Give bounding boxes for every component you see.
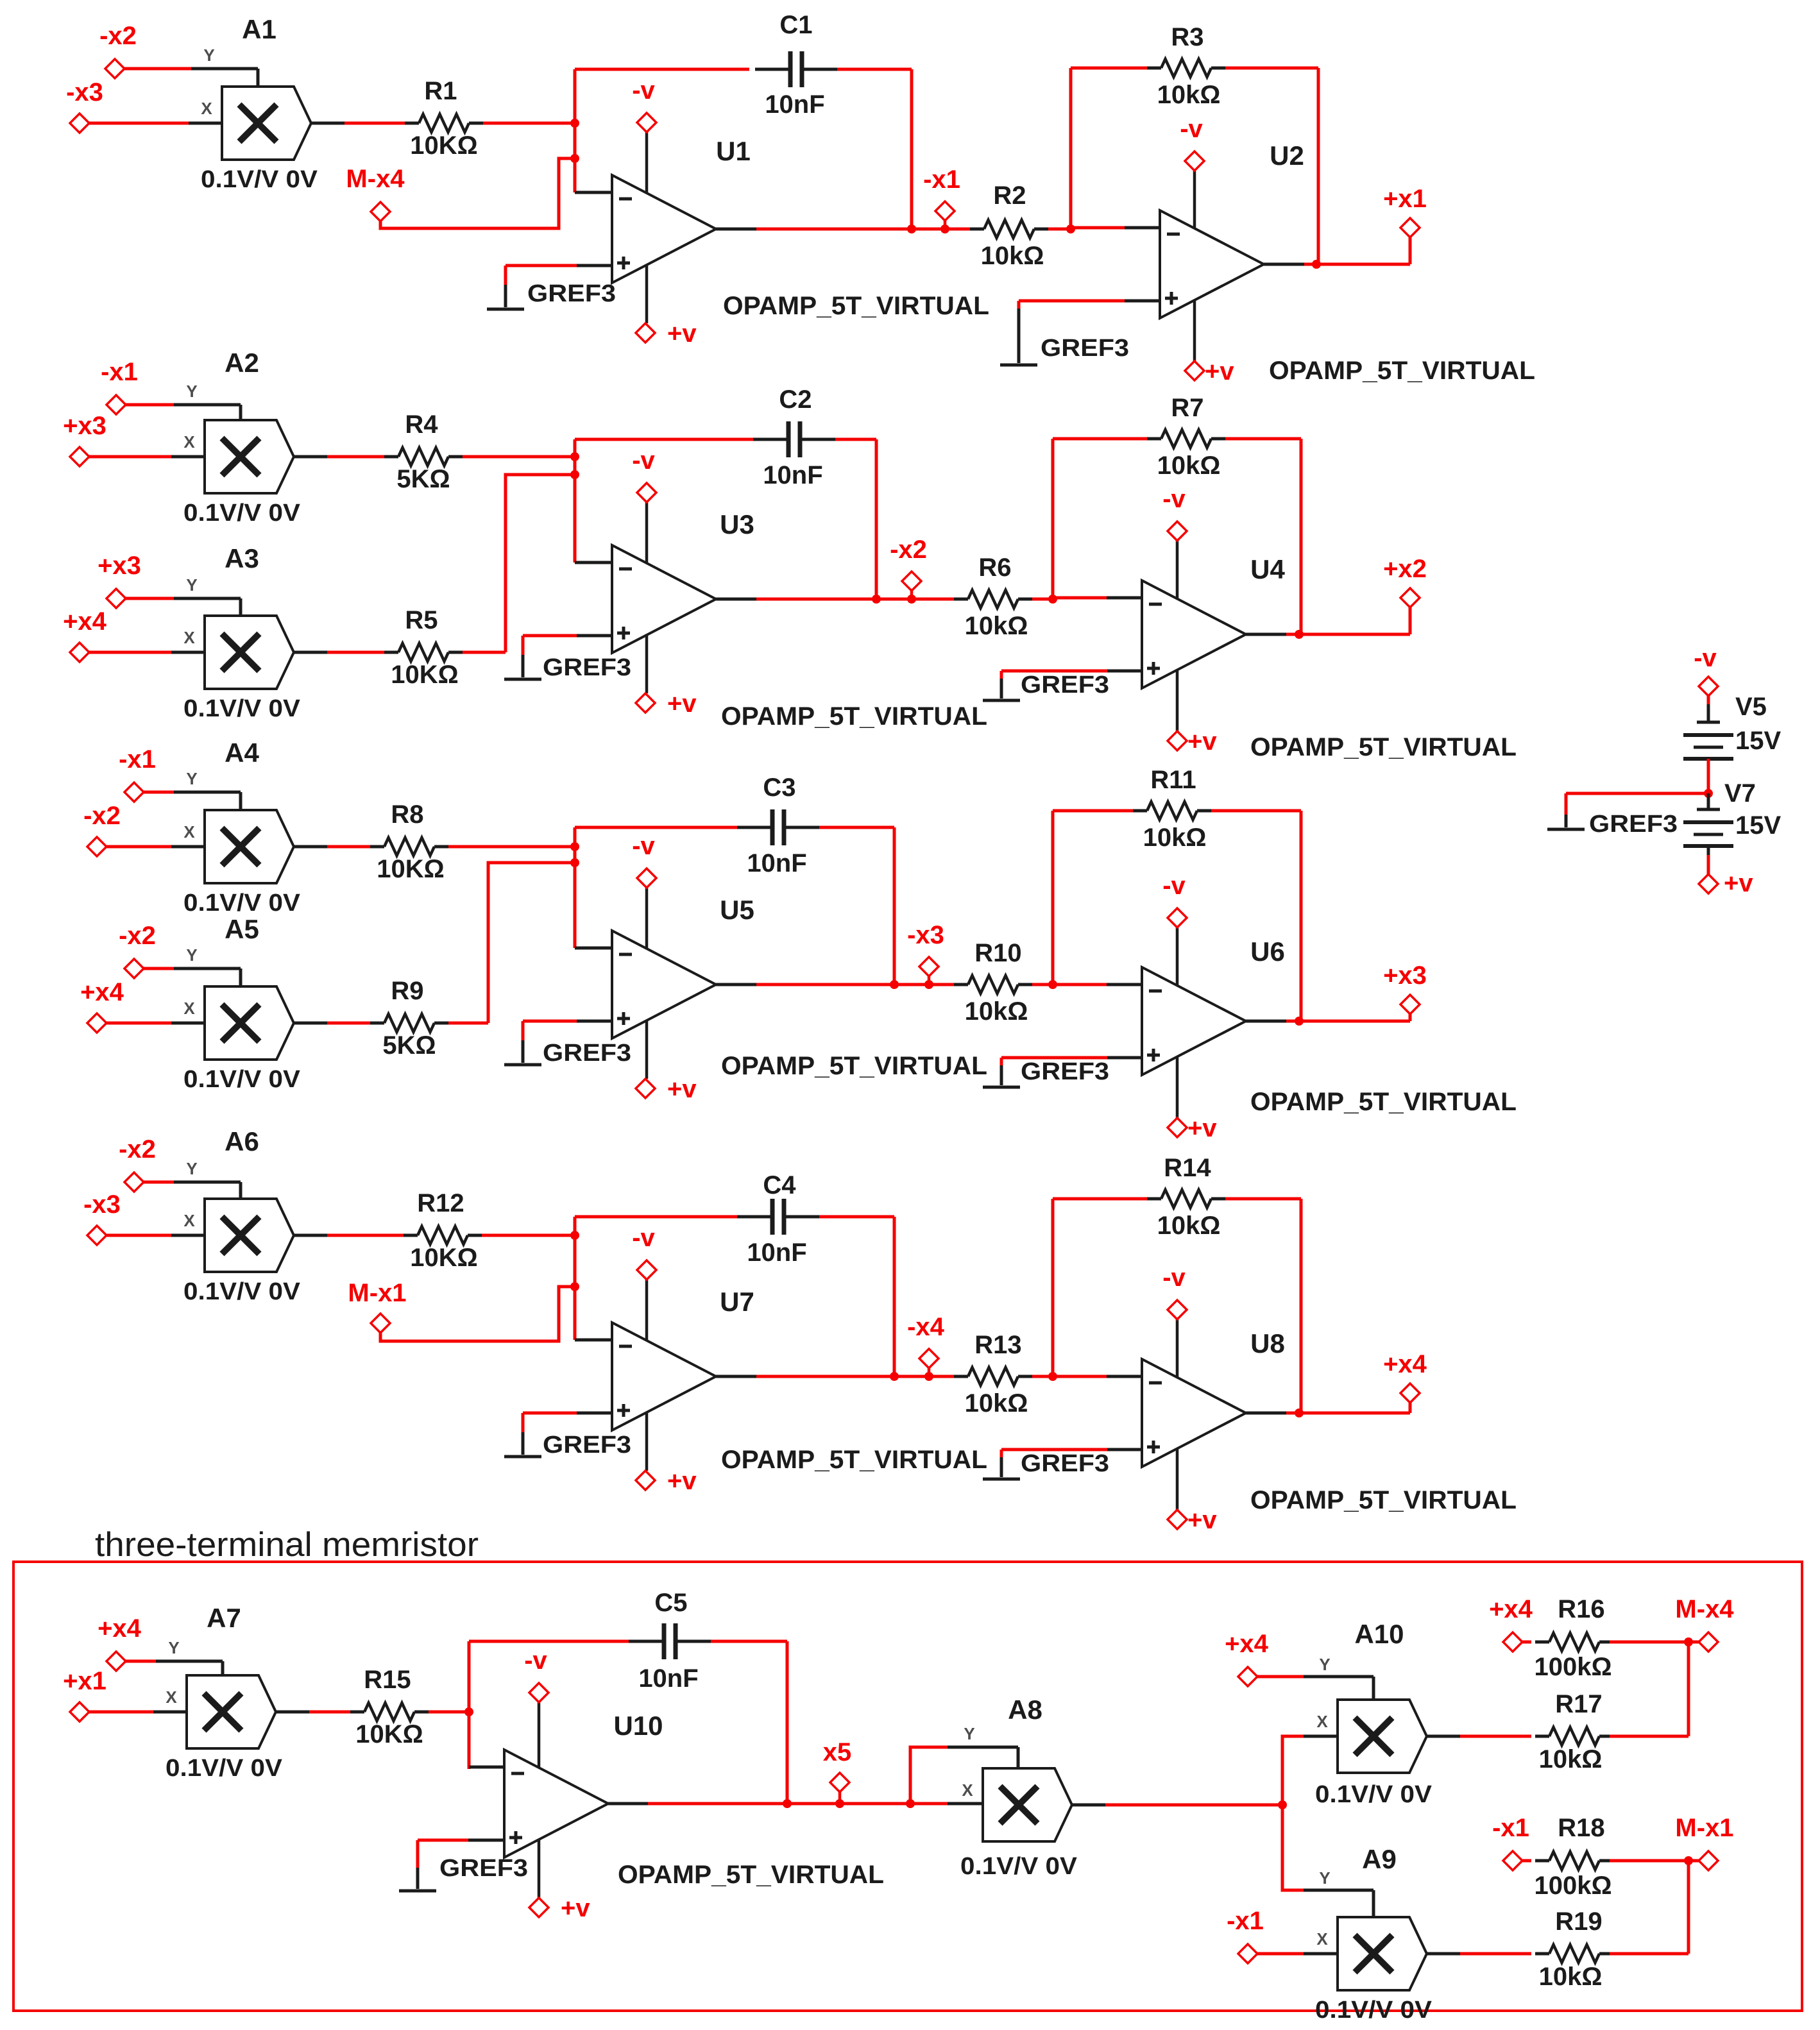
wire A8 Y input bbox=[910, 1747, 948, 1804]
svg-text:R15: R15 bbox=[364, 1666, 411, 1694]
svg-text:GREF3: GREF3 bbox=[543, 1432, 631, 1459]
svg-text:+v: +v bbox=[1724, 869, 1753, 897]
power terminal +v (battery) bbox=[1699, 874, 1718, 893]
three-terminal memristor bounding box bbox=[13, 1562, 1802, 2011]
svg-text:X: X bbox=[183, 999, 195, 1018]
svg-text:Y: Y bbox=[964, 1724, 974, 1743]
wire M-x1 to U7 inverting node bbox=[380, 1287, 575, 1341]
svg-text:M-x4: M-x4 bbox=[346, 165, 405, 193]
svg-text:+x4: +x4 bbox=[63, 607, 107, 636]
resistor R12 10K bbox=[327, 1234, 404, 1237]
svg-text:Y: Y bbox=[1319, 1655, 1330, 1674]
node -x3 terminal bbox=[70, 114, 89, 133]
svg-text:10kΩ: 10kΩ bbox=[1143, 824, 1207, 852]
svg-text:U1: U1 bbox=[716, 136, 751, 166]
power terminal -v (U5) bbox=[645, 888, 649, 949]
wire R16 to M-x4 bbox=[1610, 1641, 1699, 1644]
junction C1/output bbox=[907, 224, 916, 233]
wire U10 output to x5 bbox=[608, 1802, 648, 1806]
svg-text:A3: A3 bbox=[225, 543, 259, 573]
node -x1 terminal bbox=[124, 782, 144, 802]
multiplier A8 bbox=[983, 1768, 1072, 1841]
svg-text:+x4: +x4 bbox=[1489, 1595, 1533, 1623]
wire R18 to M-x1 bbox=[1610, 1859, 1699, 1863]
svg-text:0.1V/V 0V: 0.1V/V 0V bbox=[183, 1066, 301, 1093]
svg-text:+x4: +x4 bbox=[1383, 1350, 1427, 1378]
wire (U1 output) bbox=[716, 228, 756, 231]
power terminal +v (U7) bbox=[645, 1412, 649, 1471]
svg-text:+v: +v bbox=[561, 1894, 590, 1922]
svg-text:R3: R3 bbox=[1171, 23, 1203, 51]
wire bbox=[144, 967, 174, 970]
svg-text:10KΩ: 10KΩ bbox=[410, 1244, 477, 1272]
svg-text:+x3: +x3 bbox=[1383, 961, 1427, 990]
junction R9/U5 bbox=[570, 858, 579, 867]
wire C4 right vertical bbox=[893, 1217, 896, 1376]
wire C5 right vertical bbox=[786, 1641, 789, 1804]
svg-text:GREF3: GREF3 bbox=[543, 654, 631, 681]
node -x2 terminal bbox=[124, 959, 144, 978]
op-amp U3 bbox=[612, 545, 716, 653]
wire V7 to +v bbox=[1707, 846, 1710, 855]
power terminal +v (U6) bbox=[1176, 1057, 1179, 1118]
node -x1 terminal (R18) bbox=[1503, 1851, 1522, 1870]
junction A8-Y branch bbox=[906, 1799, 915, 1808]
wire bbox=[311, 122, 344, 125]
wire bbox=[276, 1711, 309, 1714]
node +x4 output terminal bbox=[1400, 1383, 1420, 1403]
wire (U6 inverting input) bbox=[1053, 983, 1107, 986]
svg-text:-v: -v bbox=[1162, 1264, 1186, 1292]
svg-text:10kΩ: 10kΩ bbox=[1157, 1212, 1221, 1240]
junction -x1 bbox=[940, 224, 949, 233]
svg-text:+x3: +x3 bbox=[98, 552, 141, 580]
wire U1 inverting vertical bbox=[574, 69, 577, 192]
wire feedback right (R7) bbox=[1300, 439, 1303, 634]
wire U5 output to -x3 bbox=[756, 983, 954, 986]
wire -v to V5 bbox=[1707, 696, 1710, 704]
svg-text:R14: R14 bbox=[1164, 1154, 1211, 1182]
svg-text:10kΩ: 10kΩ bbox=[965, 997, 1028, 1026]
junction -x4 bbox=[924, 1372, 933, 1381]
op-amp U7 bbox=[612, 1323, 716, 1430]
svg-text:10KΩ: 10KΩ bbox=[410, 131, 477, 160]
junction R15/U10 bbox=[464, 1707, 473, 1716]
svg-text:10kΩ: 10kΩ bbox=[1157, 81, 1221, 109]
power terminal -v (U2) bbox=[1193, 171, 1196, 228]
svg-text:R9: R9 bbox=[391, 977, 423, 1005]
wire A10 output bbox=[1427, 1735, 1460, 1738]
svg-text:+x4: +x4 bbox=[80, 978, 124, 1006]
svg-text:GREF3: GREF3 bbox=[1021, 1058, 1109, 1085]
wire R12 to U7 node bbox=[482, 1234, 575, 1237]
wire bbox=[106, 845, 171, 849]
wire bbox=[126, 597, 174, 600]
svg-text:Y: Y bbox=[168, 1638, 179, 1657]
wire (U6 output) bbox=[1246, 1020, 1286, 1023]
wire feedback right (R3) bbox=[1317, 68, 1320, 264]
svg-text:-v: -v bbox=[1162, 872, 1186, 900]
svg-text:Y: Y bbox=[186, 769, 197, 788]
svg-text:+v: +v bbox=[667, 1467, 697, 1495]
ground GREF3 (U1 non-inverting input) bbox=[577, 264, 612, 267]
svg-text:X: X bbox=[183, 1211, 195, 1230]
svg-text:-v: -v bbox=[632, 832, 655, 860]
junction A8 output branch bbox=[1278, 1800, 1287, 1809]
node +x3 output terminal bbox=[1400, 995, 1420, 1014]
op-amp U10 bbox=[504, 1750, 608, 1857]
svg-text:R7: R7 bbox=[1171, 394, 1203, 422]
junction M-x4 node bbox=[1684, 1637, 1693, 1646]
op-amp U8 bbox=[1142, 1359, 1246, 1467]
svg-text:A4: A4 bbox=[225, 738, 259, 768]
ground GREF3 (U2 non-inverting input) bbox=[1125, 300, 1160, 303]
multiplier A1 bbox=[222, 87, 311, 160]
svg-text:-x3: -x3 bbox=[66, 78, 103, 106]
svg-text:U6: U6 bbox=[1250, 936, 1285, 967]
op-amp U5 bbox=[612, 931, 716, 1038]
node -x2 terminal bbox=[105, 59, 124, 78]
resistor R10 10k bbox=[968, 976, 1018, 994]
node M-x1 output terminal bbox=[1699, 1851, 1718, 1870]
svg-text:U10: U10 bbox=[613, 1711, 663, 1741]
svg-text:10kΩ: 10kΩ bbox=[1539, 1963, 1603, 1991]
svg-text:0.1V/V 0V: 0.1V/V 0V bbox=[183, 500, 301, 527]
wire bbox=[89, 455, 171, 459]
svg-text:R19: R19 bbox=[1555, 1907, 1602, 1936]
svg-text:OPAMP_5T_VIRTUAL: OPAMP_5T_VIRTUAL bbox=[1269, 357, 1535, 385]
battery V5 15V bbox=[1697, 721, 1720, 724]
junction R2/R3/U2 bbox=[1066, 224, 1075, 233]
wire R6 to U4 bbox=[1032, 598, 1053, 601]
node -x3 terminal bbox=[87, 1226, 106, 1245]
svg-text:A8: A8 bbox=[1008, 1695, 1042, 1725]
wire R17 to M-x4 node bbox=[1610, 1735, 1688, 1738]
svg-text:10kΩ: 10kΩ bbox=[965, 612, 1028, 640]
node +x4 terminal bbox=[106, 1652, 126, 1671]
node +x1 terminal bbox=[70, 1702, 89, 1721]
svg-text:-v: -v bbox=[1694, 644, 1717, 672]
node +x4 terminal bbox=[87, 1013, 106, 1033]
svg-text:A1: A1 bbox=[242, 14, 276, 44]
svg-text:X: X bbox=[962, 1780, 973, 1800]
svg-text:OPAMP_5T_VIRTUAL: OPAMP_5T_VIRTUAL bbox=[618, 1861, 884, 1889]
wire M-x4 to U1 inverting node bbox=[380, 158, 575, 228]
wire bbox=[126, 1660, 156, 1663]
junction M-x1 node bbox=[1684, 1856, 1693, 1865]
wire R4 to U3 node bbox=[463, 455, 575, 459]
wire feedback left (R11) bbox=[1051, 811, 1055, 985]
node -x2 terminal bbox=[902, 571, 921, 591]
wire C1 right vertical bbox=[910, 69, 914, 229]
svg-text:10KΩ: 10KΩ bbox=[355, 1720, 423, 1748]
wire C3 right vertical bbox=[893, 827, 896, 985]
svg-text:C5: C5 bbox=[654, 1589, 687, 1617]
wire A9 output bbox=[1427, 1952, 1460, 1956]
resistor R18 100k bbox=[1522, 1859, 1531, 1863]
ground GREF3 (U10 non-inverting input) bbox=[468, 1839, 504, 1842]
svg-text:OPAMP_5T_VIRTUAL: OPAMP_5T_VIRTUAL bbox=[1250, 1088, 1517, 1116]
svg-text:Y: Y bbox=[186, 575, 197, 595]
wire A9 X input bbox=[1257, 1952, 1304, 1956]
svg-text:10kΩ: 10kΩ bbox=[1539, 1745, 1603, 1773]
multiplier A5 bbox=[205, 986, 294, 1060]
junction R13/R14/U8 bbox=[1048, 1372, 1057, 1381]
svg-text:-x2: -x2 bbox=[99, 22, 137, 50]
wire feedback right (R14) bbox=[1300, 1199, 1303, 1413]
svg-text:0.1V/V 0V: 0.1V/V 0V bbox=[201, 166, 318, 193]
svg-text:+x4: +x4 bbox=[98, 1614, 142, 1643]
svg-text:+x1: +x1 bbox=[1383, 185, 1427, 213]
resistor R1 10K bbox=[344, 122, 405, 125]
multiplier A10 bbox=[1338, 1700, 1427, 1773]
svg-text:A7: A7 bbox=[207, 1603, 241, 1633]
node M-x4 output terminal bbox=[1699, 1632, 1718, 1652]
multiplier A4 bbox=[205, 810, 294, 883]
svg-text:GREF3: GREF3 bbox=[543, 1040, 631, 1067]
svg-text:R18: R18 bbox=[1558, 1814, 1604, 1842]
wire V5 to junction bbox=[1707, 759, 1710, 793]
node -x4 terminal bbox=[919, 1349, 939, 1368]
svg-text:OPAMP_5T_VIRTUAL: OPAMP_5T_VIRTUAL bbox=[721, 702, 987, 731]
svg-text:+v: +v bbox=[667, 319, 697, 348]
svg-text:0.1V/V 0V: 0.1V/V 0V bbox=[1315, 1997, 1433, 2024]
svg-text:U4: U4 bbox=[1250, 554, 1285, 584]
svg-text:X: X bbox=[201, 99, 212, 118]
junction M-x1 bbox=[570, 1282, 579, 1291]
power terminal -v (U6) bbox=[1176, 927, 1179, 985]
multiplier A7 bbox=[187, 1675, 276, 1748]
resistor R4 5K bbox=[327, 455, 384, 459]
node -x3 terminal bbox=[919, 957, 939, 976]
svg-text:A10: A10 bbox=[1354, 1619, 1404, 1649]
svg-text:R17: R17 bbox=[1555, 1690, 1602, 1718]
svg-text:+x2: +x2 bbox=[1383, 555, 1427, 583]
multiplier A2 bbox=[205, 420, 294, 493]
power terminal +v (U5) bbox=[645, 1020, 649, 1079]
svg-text:+v: +v bbox=[1187, 727, 1217, 756]
wire R19 to M-x1 node bbox=[1610, 1952, 1688, 1956]
resistor R3 feedback 10k bbox=[1071, 67, 1147, 70]
power terminal +v (U8) bbox=[1176, 1449, 1179, 1510]
op-amp U1 bbox=[612, 175, 716, 283]
svg-text:R1: R1 bbox=[424, 77, 457, 105]
svg-text:A2: A2 bbox=[225, 348, 259, 378]
power terminal +v (U4) bbox=[1176, 670, 1179, 731]
svg-text:0.1V/V 0V: 0.1V/V 0V bbox=[183, 890, 301, 917]
svg-text:-x1: -x1 bbox=[1227, 1907, 1264, 1935]
svg-text:+x1: +x1 bbox=[63, 1667, 106, 1695]
capacitor C2 10nF feedback bbox=[575, 438, 753, 441]
svg-text:Y: Y bbox=[203, 46, 214, 65]
wire (U8 inverting input) bbox=[1053, 1375, 1107, 1378]
junction at U8 output bbox=[1295, 1408, 1304, 1417]
svg-text:10nF: 10nF bbox=[747, 1239, 806, 1267]
multiplier A9 bbox=[1338, 1917, 1427, 1990]
resistor R11 feedback 10k bbox=[1053, 809, 1133, 813]
resistor R6 10k bbox=[968, 590, 1018, 608]
svg-text:-x1: -x1 bbox=[119, 745, 156, 774]
ground GREF3 (battery) bbox=[1566, 792, 1708, 795]
resistor R7 feedback 10k bbox=[1053, 437, 1147, 441]
node -x1 terminal (A9 X) bbox=[1238, 1944, 1257, 1963]
svg-text:A9: A9 bbox=[1362, 1844, 1397, 1874]
node -x1 terminal bbox=[106, 395, 126, 414]
svg-text:10nF: 10nF bbox=[638, 1664, 698, 1693]
wire to A9 Y input bbox=[1282, 1805, 1304, 1890]
junction -x3 bbox=[924, 980, 933, 989]
wire R9 to U5 node bbox=[448, 1022, 488, 1025]
svg-text:10kΩ: 10kΩ bbox=[1157, 452, 1221, 480]
wire (U7 inverting input) bbox=[575, 1339, 612, 1342]
wire A10 Y input bbox=[1257, 1675, 1304, 1679]
wire U5 inverting vertical bbox=[574, 827, 577, 948]
wire bbox=[294, 1234, 327, 1237]
wire (U4 inverting input) bbox=[1053, 596, 1107, 600]
battery V7 15V bbox=[1707, 793, 1710, 809]
junction R8/U5 bbox=[570, 842, 579, 851]
wire bbox=[89, 651, 171, 654]
op-amp U4 bbox=[1142, 580, 1246, 688]
node +x2 output terminal bbox=[1400, 588, 1420, 607]
svg-text:5KΩ: 5KΩ bbox=[396, 465, 450, 493]
svg-text:U3: U3 bbox=[720, 509, 754, 539]
svg-text:R8: R8 bbox=[391, 800, 423, 829]
ground GREF3 (U8 non-inverting input) bbox=[1107, 1448, 1142, 1451]
capacitor C5 10nF feedback bbox=[469, 1640, 629, 1643]
multiplier A6 bbox=[205, 1199, 294, 1272]
resistor R15 10K bbox=[309, 1711, 350, 1714]
svg-text:GREF3: GREF3 bbox=[1021, 1450, 1109, 1477]
svg-text:+x3: +x3 bbox=[63, 412, 106, 440]
junction -x2 bbox=[907, 595, 916, 604]
wire bbox=[294, 651, 327, 654]
wire bbox=[294, 845, 327, 849]
junction R6/R7/U4 bbox=[1048, 595, 1057, 604]
wire A8 output bbox=[1072, 1804, 1105, 1807]
svg-text:R6: R6 bbox=[978, 554, 1011, 582]
svg-text:-v: -v bbox=[632, 1224, 655, 1252]
svg-text:three-terminal memristor: three-terminal memristor bbox=[95, 1526, 479, 1564]
capacitor C4 10nF feedback bbox=[575, 1215, 737, 1219]
svg-text:0.1V/V 0V: 0.1V/V 0V bbox=[166, 1755, 283, 1782]
svg-text:GREF3: GREF3 bbox=[1041, 335, 1129, 362]
svg-text:R13: R13 bbox=[974, 1331, 1021, 1359]
junction R12/U7 bbox=[570, 1231, 579, 1240]
wire bbox=[106, 1234, 171, 1237]
svg-text:R12: R12 bbox=[417, 1189, 464, 1217]
svg-text:A6: A6 bbox=[225, 1126, 259, 1156]
junction R1/U1 bbox=[570, 119, 579, 128]
svg-text:10nF: 10nF bbox=[765, 90, 824, 119]
wire R10 to U6 bbox=[1032, 983, 1053, 986]
wire (U2 output) bbox=[1264, 263, 1304, 266]
svg-text:-v: -v bbox=[1180, 115, 1203, 143]
wire U10 inverting vertical bbox=[468, 1641, 471, 1769]
junction C4/output bbox=[890, 1372, 899, 1381]
svg-text:R10: R10 bbox=[974, 939, 1021, 967]
node +x1 output terminal bbox=[1400, 218, 1420, 237]
junction at U6 output bbox=[1295, 1017, 1304, 1026]
svg-text:U2: U2 bbox=[1270, 140, 1304, 171]
wire bbox=[144, 791, 174, 794]
svg-text:-x2: -x2 bbox=[83, 802, 121, 830]
svg-text:10kΩ: 10kΩ bbox=[965, 1389, 1028, 1417]
ground GREF3 (U3 non-inverting input) bbox=[577, 634, 612, 638]
svg-text:M-x1: M-x1 bbox=[348, 1279, 406, 1307]
node +x4 terminal (R16) bbox=[1503, 1632, 1522, 1652]
capacitor C3 10nF feedback bbox=[575, 826, 737, 829]
node +x3 terminal bbox=[70, 447, 89, 466]
svg-text:10nF: 10nF bbox=[747, 849, 806, 877]
svg-text:-v: -v bbox=[1162, 485, 1186, 513]
svg-text:U8: U8 bbox=[1250, 1328, 1285, 1358]
wire U1 output to -x1 bbox=[756, 228, 970, 231]
svg-text:GREF3: GREF3 bbox=[439, 1855, 528, 1882]
wire (U3 inverting input) bbox=[575, 561, 612, 564]
svg-text:100kΩ: 100kΩ bbox=[1534, 1653, 1612, 1681]
wire feedback right (R11) bbox=[1300, 811, 1303, 1021]
svg-text:OPAMP_5T_VIRTUAL: OPAMP_5T_VIRTUAL bbox=[721, 1446, 987, 1474]
svg-text:Y: Y bbox=[186, 945, 197, 965]
resistor R8 10K bbox=[327, 845, 370, 849]
svg-text:U5: U5 bbox=[720, 895, 754, 925]
svg-text:5KΩ: 5KΩ bbox=[382, 1031, 436, 1060]
capacitor C1 10nF feedback bbox=[575, 68, 749, 71]
svg-text:100kΩ: 100kΩ bbox=[1534, 1872, 1612, 1900]
wire (U5 output) bbox=[716, 983, 756, 986]
svg-text:C3: C3 bbox=[763, 774, 795, 802]
svg-text:-v: -v bbox=[632, 76, 655, 105]
svg-text:0.1V/V 0V: 0.1V/V 0V bbox=[1315, 1781, 1433, 1808]
wire R5 to U3 node bbox=[463, 651, 506, 654]
wire bbox=[294, 1022, 327, 1025]
svg-text:-v: -v bbox=[632, 446, 655, 475]
power terminal -v (U1) bbox=[645, 132, 649, 193]
wire (U3 output) bbox=[716, 598, 756, 601]
svg-text:U7: U7 bbox=[720, 1287, 754, 1317]
junction at U2 output bbox=[1312, 260, 1321, 269]
svg-text:X: X bbox=[183, 432, 195, 452]
wire U7 output to -x4 bbox=[756, 1375, 954, 1378]
resistor R16 100k bbox=[1522, 1641, 1531, 1644]
power terminal +v (U1) bbox=[645, 265, 649, 323]
svg-text:X: X bbox=[183, 628, 195, 647]
svg-text:X: X bbox=[1316, 1929, 1328, 1949]
svg-text:+v: +v bbox=[1187, 1114, 1217, 1142]
node +x4 terminal (A10 Y) bbox=[1238, 1667, 1257, 1686]
junction at U4 output bbox=[1295, 630, 1304, 639]
svg-text:-x1: -x1 bbox=[101, 358, 138, 386]
svg-text:C1: C1 bbox=[779, 11, 812, 39]
svg-text:10KΩ: 10KΩ bbox=[377, 855, 444, 883]
svg-text:R4: R4 bbox=[405, 410, 438, 439]
svg-text:+v: +v bbox=[1205, 357, 1234, 385]
ground GREF3 (U5 non-inverting input) bbox=[577, 1020, 612, 1023]
wire R2 to U2 bbox=[1048, 228, 1071, 231]
svg-text:Y: Y bbox=[1319, 1868, 1330, 1888]
wire C2 right vertical bbox=[875, 439, 878, 599]
svg-text:10nF: 10nF bbox=[763, 461, 822, 489]
svg-text:-x3: -x3 bbox=[83, 1190, 121, 1219]
svg-text:M-x1: M-x1 bbox=[1675, 1814, 1733, 1842]
wire (U4 output) bbox=[1246, 633, 1286, 636]
wire feedback left (R3) bbox=[1069, 68, 1073, 228]
node +x3 terminal bbox=[106, 589, 126, 608]
junction battery midpoint bbox=[1704, 789, 1713, 798]
junction R10/R11/U6 bbox=[1048, 980, 1057, 989]
svg-text:OPAMP_5T_VIRTUAL: OPAMP_5T_VIRTUAL bbox=[723, 292, 989, 320]
